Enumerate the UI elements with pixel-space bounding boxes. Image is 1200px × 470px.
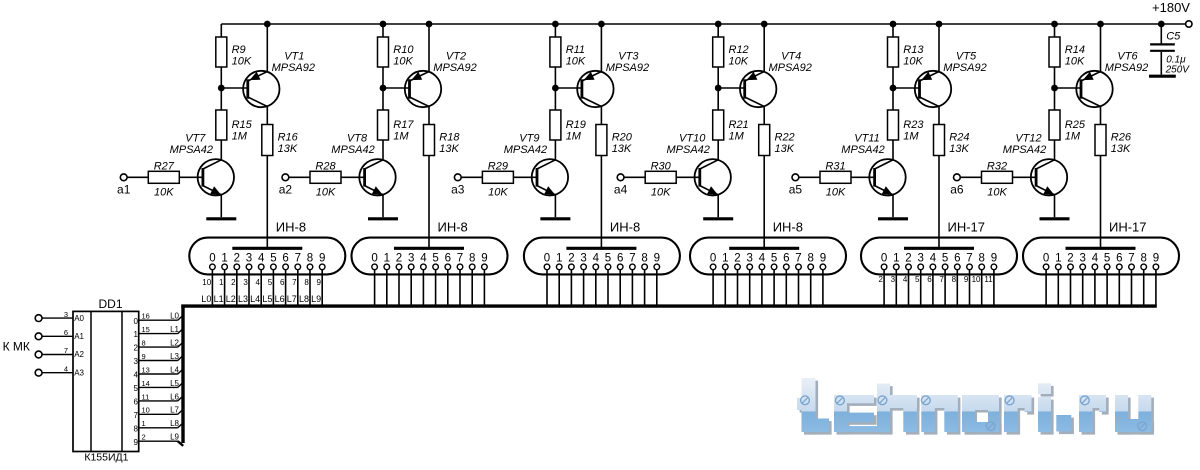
- svg-text:10K: 10K: [987, 186, 1007, 198]
- svg-text:250V: 250V: [1165, 65, 1191, 76]
- svg-text:MPSA92: MPSA92: [433, 62, 476, 74]
- svg-text:ИН-8: ИН-8: [773, 220, 803, 235]
- svg-text:R15: R15: [232, 119, 253, 131]
- svg-text:4: 4: [258, 252, 265, 264]
- svg-text:2: 2: [1067, 252, 1073, 264]
- svg-text:4: 4: [930, 252, 937, 264]
- svg-text:К МК: К МК: [3, 339, 30, 353]
- svg-text:8: 8: [807, 252, 813, 264]
- svg-text:7: 7: [1128, 252, 1134, 264]
- svg-text:8: 8: [978, 252, 984, 264]
- svg-text:2: 2: [905, 252, 911, 264]
- svg-text:L5: L5: [170, 379, 179, 388]
- svg-text:MPSA92: MPSA92: [272, 62, 315, 74]
- svg-text:5: 5: [915, 275, 920, 284]
- svg-text:10K: 10K: [316, 186, 336, 198]
- svg-text:1: 1: [722, 252, 728, 264]
- svg-text:1: 1: [384, 252, 390, 264]
- svg-text:ИН-17: ИН-17: [948, 220, 986, 235]
- svg-text:MPSA92: MPSA92: [606, 62, 649, 74]
- svg-text:L3: L3: [238, 294, 248, 304]
- svg-text:R29: R29: [488, 160, 508, 172]
- svg-text:C5: C5: [1166, 31, 1181, 43]
- svg-text:3: 3: [134, 357, 139, 366]
- svg-text:MPSA42: MPSA42: [504, 144, 547, 156]
- svg-text:13K: 13K: [1111, 143, 1131, 155]
- svg-text:a5: a5: [789, 183, 803, 197]
- svg-text:8: 8: [469, 252, 475, 264]
- svg-text:1M: 1M: [232, 131, 248, 143]
- svg-text:8: 8: [952, 275, 957, 284]
- svg-text:R31: R31: [825, 160, 845, 172]
- svg-text:9: 9: [142, 352, 146, 361]
- svg-text:7: 7: [292, 278, 297, 287]
- svg-text:15: 15: [142, 325, 150, 334]
- svg-text:4: 4: [1092, 252, 1099, 264]
- svg-text:7: 7: [457, 252, 463, 264]
- svg-text:10K: 10K: [729, 56, 749, 68]
- svg-text:R12: R12: [729, 44, 749, 56]
- svg-text:6: 6: [445, 252, 451, 264]
- svg-text:7: 7: [134, 411, 139, 420]
- svg-text:2: 2: [134, 344, 139, 353]
- svg-text:VT7: VT7: [185, 132, 206, 144]
- svg-text:9: 9: [654, 252, 660, 264]
- svg-text:0: 0: [544, 252, 550, 264]
- svg-text:8: 8: [641, 252, 647, 264]
- svg-text:MPSA42: MPSA42: [1003, 144, 1046, 156]
- svg-text:3: 3: [746, 252, 752, 264]
- svg-text:4: 4: [420, 252, 427, 264]
- svg-text:L0: L0: [201, 294, 211, 304]
- svg-text:К155ИД1: К155ИД1: [84, 452, 128, 464]
- svg-text:10K: 10K: [1065, 56, 1085, 68]
- svg-text:10K: 10K: [651, 186, 671, 198]
- svg-text:11: 11: [984, 275, 993, 284]
- svg-text:5: 5: [771, 252, 777, 264]
- svg-text:+180V: +180V: [1152, 0, 1190, 15]
- svg-text:L4: L4: [170, 365, 179, 374]
- svg-text:6: 6: [1116, 252, 1122, 264]
- svg-text:VT12: VT12: [1015, 132, 1041, 144]
- svg-text:ИН-8: ИН-8: [610, 220, 640, 235]
- svg-text:R10: R10: [393, 44, 414, 56]
- svg-text:4: 4: [759, 252, 766, 264]
- svg-text:2: 2: [142, 433, 146, 442]
- svg-text:1: 1: [219, 278, 224, 287]
- svg-text:8: 8: [134, 424, 139, 433]
- svg-text:R11: R11: [566, 44, 585, 56]
- svg-text:5: 5: [268, 278, 273, 287]
- svg-text:5: 5: [605, 252, 611, 264]
- svg-text:R25: R25: [1065, 119, 1086, 131]
- svg-text:13K: 13K: [949, 143, 969, 155]
- svg-text:2: 2: [734, 252, 740, 264]
- svg-text:1M: 1M: [393, 131, 409, 143]
- svg-text:A2: A2: [74, 350, 84, 359]
- svg-text:VT8: VT8: [347, 132, 368, 144]
- svg-text:16: 16: [142, 312, 150, 321]
- svg-text:MPSA92: MPSA92: [768, 62, 811, 74]
- svg-text:13K: 13K: [775, 143, 795, 155]
- svg-text:0: 0: [1043, 252, 1049, 264]
- svg-text:13K: 13K: [439, 143, 459, 155]
- svg-text:8: 8: [307, 252, 313, 264]
- svg-text:4: 4: [903, 275, 908, 284]
- svg-text:8: 8: [142, 339, 146, 348]
- svg-text:9: 9: [991, 252, 997, 264]
- svg-text:7: 7: [966, 252, 972, 264]
- svg-text:a4: a4: [614, 183, 628, 197]
- svg-text:L1: L1: [214, 294, 224, 304]
- svg-text:3: 3: [246, 252, 252, 264]
- svg-text:a2: a2: [279, 183, 293, 197]
- svg-text:R20: R20: [612, 131, 633, 143]
- svg-text:R21: R21: [729, 119, 749, 131]
- svg-text:1: 1: [556, 252, 562, 264]
- svg-text:5: 5: [134, 384, 139, 393]
- svg-text:VT11: VT11: [854, 132, 879, 144]
- svg-text:R13: R13: [903, 44, 924, 56]
- svg-text:7: 7: [629, 252, 635, 264]
- svg-text:1: 1: [142, 419, 146, 428]
- svg-text:10: 10: [202, 278, 211, 287]
- svg-text:6: 6: [280, 278, 285, 287]
- svg-text:MPSA92: MPSA92: [943, 62, 986, 74]
- svg-text:6: 6: [64, 328, 68, 337]
- svg-text:L6: L6: [170, 392, 179, 401]
- svg-text:5: 5: [270, 252, 276, 264]
- svg-text:2: 2: [568, 252, 574, 264]
- svg-text:3: 3: [917, 252, 923, 264]
- svg-text:7: 7: [795, 252, 801, 264]
- svg-text:7: 7: [64, 346, 68, 355]
- svg-text:2: 2: [231, 278, 236, 287]
- svg-text:R22: R22: [775, 131, 795, 143]
- svg-text:0: 0: [371, 252, 377, 264]
- svg-text:L7: L7: [287, 294, 297, 304]
- svg-text:6: 6: [134, 398, 139, 407]
- svg-text:11: 11: [142, 392, 150, 401]
- svg-text:2: 2: [234, 252, 240, 264]
- svg-text:R16: R16: [278, 131, 299, 143]
- svg-text:R23: R23: [903, 119, 924, 131]
- svg-text:a3: a3: [451, 183, 465, 197]
- svg-text:4: 4: [134, 371, 139, 380]
- svg-text:L9: L9: [311, 294, 321, 304]
- svg-text:10: 10: [972, 275, 981, 284]
- svg-text:0: 0: [881, 252, 887, 264]
- svg-text:DD1: DD1: [98, 297, 122, 311]
- svg-text:5: 5: [1104, 252, 1110, 264]
- svg-text:a6: a6: [950, 183, 964, 197]
- svg-text:14: 14: [142, 379, 150, 388]
- svg-text:VT5: VT5: [956, 51, 977, 63]
- svg-text:1M: 1M: [566, 131, 582, 143]
- svg-text:6: 6: [282, 252, 288, 264]
- svg-text:L2: L2: [226, 294, 236, 304]
- svg-text:6: 6: [954, 252, 960, 264]
- svg-text:0: 0: [710, 252, 716, 264]
- svg-text:R9: R9: [232, 44, 246, 56]
- svg-text:9: 9: [319, 252, 325, 264]
- svg-text:10K: 10K: [232, 56, 252, 68]
- svg-text:4: 4: [593, 252, 600, 264]
- svg-text:7: 7: [939, 275, 944, 284]
- svg-text:10K: 10K: [566, 56, 586, 68]
- svg-text:L3: L3: [170, 352, 179, 361]
- svg-text:9: 9: [820, 252, 826, 264]
- svg-text:4: 4: [64, 364, 68, 373]
- svg-text:10: 10: [142, 406, 150, 415]
- svg-text:VT4: VT4: [781, 51, 801, 63]
- svg-text:L0: L0: [170, 312, 179, 321]
- svg-text:VT3: VT3: [618, 51, 639, 63]
- svg-text:A0: A0: [74, 314, 84, 323]
- svg-text:L4: L4: [250, 294, 260, 304]
- svg-text:A3: A3: [74, 368, 84, 377]
- svg-text:4: 4: [256, 278, 261, 287]
- svg-text:3: 3: [891, 275, 896, 284]
- svg-text:ИН-8: ИН-8: [438, 220, 468, 235]
- svg-text:MPSA42: MPSA42: [841, 144, 884, 156]
- svg-text:9: 9: [481, 252, 487, 264]
- svg-text:L5: L5: [262, 294, 272, 304]
- svg-text:R18: R18: [439, 131, 460, 143]
- svg-text:3: 3: [408, 252, 414, 264]
- svg-text:VT2: VT2: [446, 51, 466, 63]
- svg-text:0: 0: [209, 252, 215, 264]
- svg-text:a1: a1: [117, 183, 131, 197]
- svg-text:R26: R26: [1111, 131, 1132, 143]
- svg-text:ИН-17: ИН-17: [1109, 220, 1147, 235]
- svg-text:L2: L2: [170, 339, 179, 348]
- svg-text:MPSA42: MPSA42: [170, 144, 213, 156]
- svg-text:R19: R19: [566, 119, 586, 131]
- svg-text:R17: R17: [393, 119, 414, 131]
- svg-text:ИН-8: ИН-8: [276, 220, 306, 235]
- svg-text:7: 7: [295, 252, 301, 264]
- svg-text:L8: L8: [299, 294, 309, 304]
- svg-text:3: 3: [580, 252, 586, 264]
- svg-text:VT1: VT1: [284, 51, 304, 63]
- svg-text:9: 9: [1153, 252, 1159, 264]
- svg-text:8: 8: [304, 278, 309, 287]
- svg-text:MPSA92: MPSA92: [1105, 62, 1148, 74]
- svg-text:6: 6: [617, 252, 623, 264]
- svg-text:3: 3: [1079, 252, 1085, 264]
- svg-text:0: 0: [134, 317, 139, 326]
- svg-text:6: 6: [927, 275, 932, 284]
- svg-text:8: 8: [1140, 252, 1146, 264]
- svg-text:L9: L9: [170, 433, 179, 442]
- svg-text:1: 1: [221, 252, 227, 264]
- svg-text:L8: L8: [170, 419, 179, 428]
- svg-text:2: 2: [878, 275, 883, 284]
- svg-text:1M: 1M: [1065, 131, 1081, 143]
- svg-text:9: 9: [317, 278, 322, 287]
- svg-text:VT9: VT9: [519, 132, 539, 144]
- svg-text:1M: 1M: [903, 131, 919, 143]
- svg-text:13: 13: [142, 365, 150, 374]
- svg-text:5: 5: [942, 252, 948, 264]
- svg-text:VT10: VT10: [679, 132, 706, 144]
- svg-text:2: 2: [396, 252, 402, 264]
- svg-text:A1: A1: [74, 332, 84, 341]
- svg-text:1M: 1M: [729, 131, 745, 143]
- svg-text:L1: L1: [170, 325, 179, 334]
- svg-text:9: 9: [964, 275, 969, 284]
- svg-text:13K: 13K: [612, 143, 632, 155]
- svg-text:3: 3: [243, 278, 248, 287]
- svg-text:R14: R14: [1065, 44, 1085, 56]
- svg-text:R28: R28: [315, 160, 336, 172]
- svg-text:10K: 10K: [393, 56, 413, 68]
- svg-text:L7: L7: [170, 406, 179, 415]
- svg-text:3: 3: [64, 310, 68, 319]
- svg-text:L6: L6: [275, 294, 285, 304]
- svg-text:10K: 10K: [903, 56, 923, 68]
- svg-text:1: 1: [1055, 252, 1061, 264]
- svg-text:9: 9: [134, 438, 139, 447]
- svg-text:VT6: VT6: [1117, 51, 1138, 63]
- svg-text:10K: 10K: [826, 186, 846, 198]
- svg-text:5: 5: [432, 252, 438, 264]
- svg-text:R27: R27: [154, 160, 175, 172]
- svg-text:MPSA42: MPSA42: [331, 144, 374, 156]
- svg-text:6: 6: [783, 252, 789, 264]
- svg-text:13K: 13K: [278, 143, 298, 155]
- svg-text:1: 1: [893, 252, 899, 264]
- svg-text:MPSA42: MPSA42: [666, 144, 709, 156]
- svg-text:R30: R30: [651, 160, 672, 172]
- svg-text:10K: 10K: [154, 186, 174, 198]
- svg-text:R32: R32: [987, 160, 1007, 172]
- svg-text:1: 1: [134, 330, 139, 339]
- svg-text:R24: R24: [949, 131, 969, 143]
- svg-text:10K: 10K: [488, 186, 508, 198]
